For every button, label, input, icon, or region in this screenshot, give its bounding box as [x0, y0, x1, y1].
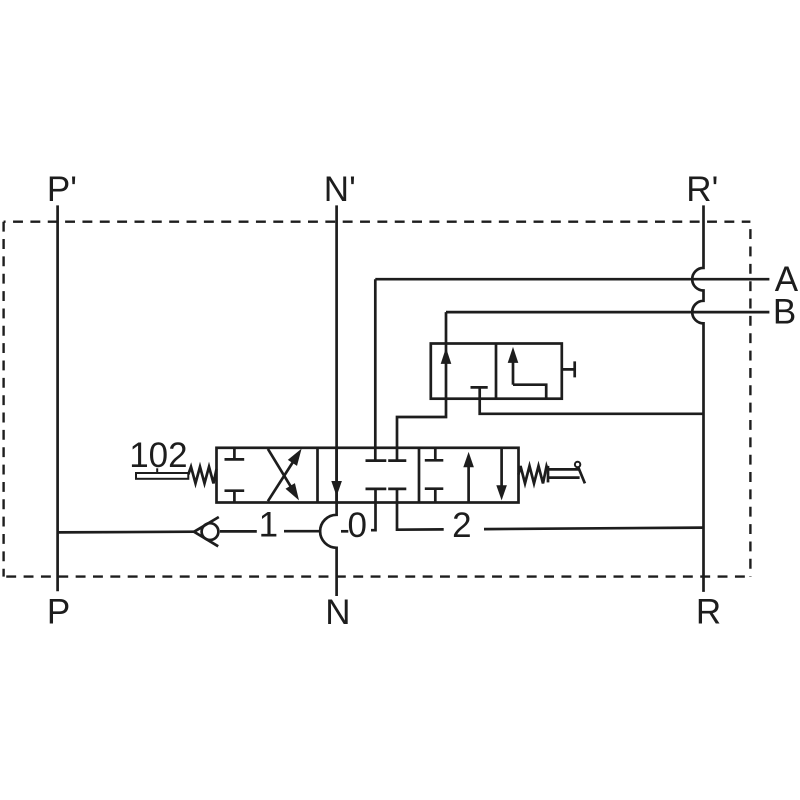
wire line B	[446, 311, 769, 314]
V1 cell2 N-line down arrow	[335, 448, 338, 503]
wire R line (port R/R') with jumps over lines A and B	[692, 205, 703, 592]
svg-text:102: 102	[129, 436, 187, 475]
pilot valve U2 cell divider	[495, 344, 498, 399]
V1 cell3 blocked port T top	[425, 448, 444, 461]
lever rod	[548, 469, 580, 477]
svg-text:0: 0	[347, 506, 366, 545]
pilot valve U2 right-cell flow arrow	[512, 362, 515, 385]
spring right end plate	[547, 466, 550, 483]
svg-text:2: 2	[452, 506, 471, 545]
wire N line (port N/N') with jump over line 1-0	[320, 205, 336, 596]
enclosure dashed boundary	[4, 222, 751, 577]
wire segment label 2 to R line	[484, 528, 704, 530]
svg-text:R: R	[696, 592, 721, 631]
leader tick for label 102	[156, 468, 158, 473]
svg-text:B: B	[773, 292, 796, 331]
check valve ball	[202, 523, 219, 540]
svg-text:P': P'	[47, 170, 77, 209]
main valve V1 body	[217, 448, 519, 503]
svg-text:N': N'	[324, 170, 356, 209]
wire line 1-0 from P to valve	[58, 530, 195, 533]
lever arm	[578, 467, 585, 483]
V1 cell2 blocked port Ts top	[366, 459, 407, 462]
main valve V1 cell dividers	[318, 448, 420, 503]
wire P line (port P/P')	[56, 205, 59, 591]
pilot valve U2 body	[431, 344, 562, 399]
wire segment N jump to label 0	[341, 530, 348, 533]
pilot valve U2 right-cell step path	[513, 385, 546, 399]
check valve seat V	[194, 517, 219, 546]
push rod actuator	[136, 473, 188, 479]
wire riser from line B through pilot valve V2 down to valve V1 port	[397, 312, 446, 461]
spring right	[519, 466, 549, 483]
pilot valve U2 plunger pin actuator	[562, 361, 575, 377]
wire segment label 1 to N jump	[284, 530, 320, 533]
wire segment check valve to label 1	[220, 530, 257, 533]
V1 cell1 blocked port T top	[225, 448, 245, 460]
svg-text:R': R'	[686, 170, 718, 209]
lever knob circle	[575, 462, 580, 467]
V1 cell1 crossed flow arrow down-right	[268, 449, 295, 493]
pilot valve U2 left-cell blocked port T	[471, 386, 488, 389]
wire riser from line A down into valve V1 port	[374, 279, 377, 460]
spring left	[188, 467, 216, 484]
svg-text:P: P	[47, 593, 70, 632]
V1 cell3 flow arrow down	[500, 448, 503, 486]
V1 cell1 blocked port T bottom	[225, 491, 245, 503]
wire stub position 2 from valve	[397, 489, 444, 530]
svg-text:N: N	[325, 593, 350, 632]
wire stub position 0 from valve	[371, 489, 376, 530]
V1 cell3 blocked port T bottom	[425, 489, 444, 503]
svg-text:1: 1	[259, 505, 278, 544]
wire line A	[375, 278, 769, 281]
V1 cell2 blocked port Ts bottom	[366, 488, 407, 491]
pilot valve U2 left-cell flow arrow	[441, 348, 452, 364]
V1 cell3 flow arrow up	[467, 464, 470, 503]
V1 cell1 crossed flow arrow up-right	[268, 455, 297, 501]
wire pilot valve drain to R line	[480, 387, 704, 413]
